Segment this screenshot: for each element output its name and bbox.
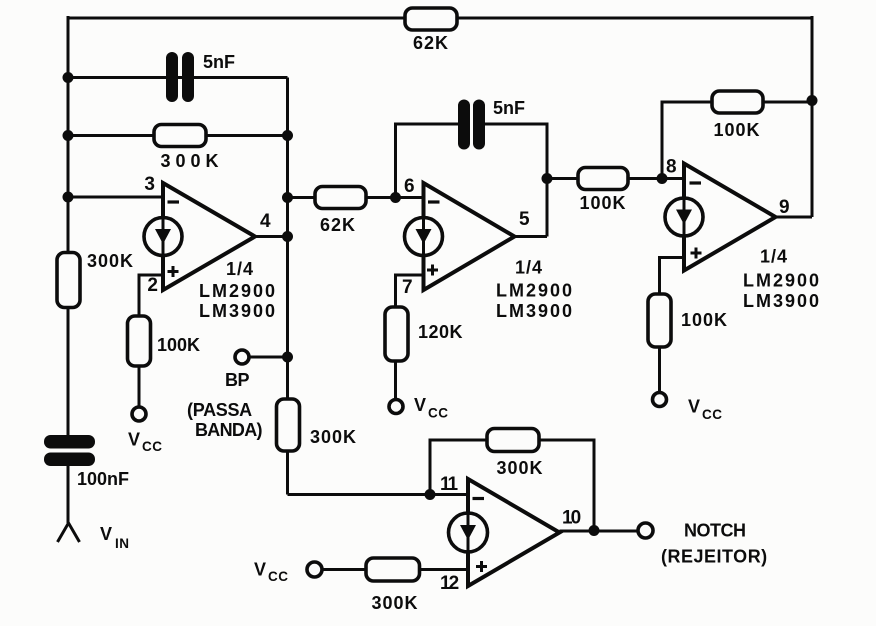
terminal Vcc U1: [132, 407, 146, 421]
wire capacitor C2 right branch: [485, 124, 547, 237]
svg-text:LM3900: LM3900: [199, 301, 277, 321]
wire plus input U3: [660, 258, 685, 295]
svg-text:V: V: [414, 395, 427, 415]
node junction BP: [282, 352, 293, 363]
resistor 300K input divider: [57, 253, 80, 308]
svg-text:6: 6: [404, 176, 416, 197]
svg-text:5: 5: [519, 209, 531, 230]
op-amp U1 current mirror: [144, 218, 182, 256]
op-amp U3 current mirror: [665, 198, 703, 236]
wire pin 7 Vcc stub U2: [394, 361, 397, 400]
wire pin 3 input U1: [68, 196, 163, 199]
wire 62K coupling to pin 6: [288, 196, 424, 199]
svg-text:1/4: 1/4: [226, 259, 254, 279]
svg-text:120K: 120K: [418, 322, 463, 342]
svg-text:5nF: 5nF: [493, 98, 525, 118]
svg-text:CC: CC: [142, 439, 163, 454]
terminal Vcc U4: [307, 562, 322, 577]
wire resistor 300K feedback branch U1: [68, 134, 288, 137]
resistor 120K pin 7 bias U2: [385, 307, 408, 361]
capacitor C4 100nF plate 1: [44, 435, 95, 449]
wire 100K coupling to pin 8: [547, 177, 684, 180]
capacitor C1 5nF plate 2: [182, 52, 194, 102]
svg-text:(REJEITOR): (REJEITOR): [661, 547, 768, 567]
svg-text:300K: 300K: [496, 458, 543, 478]
resistor 300K feedback U1: [154, 125, 206, 147]
terminal Vcc U2: [389, 400, 403, 414]
svg-text:100K: 100K: [681, 310, 728, 330]
svg-text:BP: BP: [225, 370, 249, 390]
wire pin 9 output U3: [776, 216, 813, 219]
wire pin 10 output U4: [560, 530, 639, 533]
svg-text:BANDA): BANDA): [195, 420, 262, 440]
node junction pin 8: [657, 173, 668, 184]
svg-text:9: 9: [779, 197, 791, 218]
resistor 300K feedback U4: [487, 429, 539, 452]
op-amp U4 plus sign: [476, 561, 487, 572]
svg-text:LM3900: LM3900: [743, 291, 821, 311]
wire 300K feedback right leg U4: [539, 440, 594, 531]
svg-text:CC: CC: [268, 569, 289, 584]
svg-text:LM2900: LM2900: [496, 281, 574, 301]
node junction pin 10: [589, 525, 600, 536]
svg-text:V: V: [128, 430, 141, 450]
op-amp U4: [468, 479, 560, 586]
wire pin 5 output U2: [515, 235, 548, 238]
svg-text:V: V: [688, 397, 701, 417]
svg-text:100nF: 100nF: [77, 469, 129, 489]
wire left input rail: [67, 16, 70, 437]
node junction 62K left: [282, 192, 293, 203]
terminal NOTCH output: [638, 523, 653, 538]
svg-text:2: 2: [147, 275, 159, 296]
op-amp U2: [424, 183, 515, 290]
node junction left C1: [63, 72, 74, 83]
node junction pin 6: [390, 192, 401, 203]
wire input coupling below C4: [67, 464, 70, 523]
svg-text:100K: 100K: [713, 120, 760, 140]
op-amp U4 current mirror: [449, 513, 488, 552]
svg-text:11: 11: [440, 474, 459, 495]
svg-text:300K: 300K: [160, 151, 223, 171]
op-amp U3: [684, 164, 776, 271]
svg-text:1/4: 1/4: [760, 247, 788, 267]
resistor 300K pin 12 U4: [366, 558, 420, 581]
svg-text:LM3900: LM3900: [496, 301, 574, 321]
op-amp U1 plus sign: [168, 266, 179, 277]
wire BP tap: [249, 356, 288, 359]
svg-text:(PASSA: (PASSA: [187, 400, 252, 420]
svg-text:5nF: 5nF: [203, 52, 235, 72]
wire top feedback rail: [68, 17, 812, 20]
node junction 300K right: [282, 130, 293, 141]
svg-text:300K: 300K: [87, 251, 134, 271]
svg-text:100K: 100K: [579, 193, 626, 213]
resistor 100K bias U3: [648, 294, 671, 347]
capacitor C1 5nF plate 1: [166, 52, 178, 102]
svg-text:3: 3: [144, 174, 156, 195]
svg-text:100K: 100K: [157, 335, 200, 355]
label Vcc U4: [254, 560, 289, 585]
resistor 300K BP branch: [277, 399, 300, 451]
wire capacitor C2 left branch: [396, 124, 459, 198]
svg-text:LM2900: LM2900: [199, 281, 277, 301]
svg-text:10: 10: [562, 508, 581, 529]
input arrow V_IN: [58, 523, 80, 542]
wire plus Vcc stub U3: [658, 347, 661, 393]
op-amp U3 plus sign: [691, 248, 702, 259]
capacitor C4 100nF plate 2: [44, 453, 95, 467]
wire pin 11 input U4: [288, 493, 469, 496]
op-amp U2 minus sign: [428, 200, 440, 203]
svg-text:1/4: 1/4: [515, 258, 543, 278]
op-amp U4 minus sign: [473, 497, 485, 500]
svg-text:V: V: [100, 524, 113, 544]
wire pin 7 input U2: [396, 275, 424, 307]
svg-text:4: 4: [260, 211, 272, 232]
svg-text:CC: CC: [428, 406, 449, 421]
resistor 100K pin 2 bias U1: [128, 316, 151, 366]
node junction right rail: [807, 95, 818, 106]
label Vcc U2: [414, 395, 449, 421]
wire pin 2 input U1: [139, 275, 163, 316]
wire right rail down to pin 9: [811, 16, 814, 217]
op-amp U1 minus sign: [168, 200, 180, 203]
wire capacitor C1 branch: [68, 76, 288, 79]
wire 100K feedback right to rail: [763, 101, 812, 104]
resistor 62K top feedback: [405, 8, 457, 30]
op-amp U1: [163, 183, 255, 290]
wire pin 2 Vcc stub U1: [138, 366, 141, 408]
node junction pin 11: [425, 489, 436, 500]
op-amp U3 minus sign: [690, 181, 702, 184]
svg-text:62K: 62K: [413, 33, 449, 53]
op-amp U2 plus sign: [427, 265, 438, 276]
svg-text:300K: 300K: [310, 427, 357, 447]
svg-text:LM2900: LM2900: [743, 271, 821, 291]
wire pin 4 output U1: [255, 235, 288, 238]
op-amp U2 current mirror: [405, 218, 443, 256]
capacitor C2 5nF plate 1: [458, 100, 470, 150]
node junction left pin 3: [63, 192, 74, 203]
wire 100K feedback branch U3: [662, 102, 712, 179]
svg-text:62K: 62K: [320, 215, 356, 235]
terminal Vcc U3: [653, 393, 667, 407]
svg-text:12: 12: [440, 573, 459, 594]
svg-text:NOTCH: NOTCH: [684, 521, 746, 541]
node junction U2 output tap: [542, 173, 553, 184]
svg-text:IN: IN: [115, 536, 130, 551]
resistor 62K coupling U1-U2: [315, 187, 366, 209]
label Vcc U3: [688, 397, 723, 423]
svg-text:7: 7: [402, 277, 414, 298]
terminal BP: [235, 350, 249, 364]
svg-text:300K: 300K: [371, 593, 418, 613]
label V_IN: [100, 524, 130, 551]
wire 300K feedback loop U4: [430, 440, 487, 495]
wire node column A (op-amp U1 output bus): [286, 78, 289, 495]
wire pin 12 input U4: [322, 568, 469, 571]
svg-text:V: V: [254, 560, 267, 580]
node junction left 300K: [63, 130, 74, 141]
label Vcc U1: [128, 430, 163, 455]
svg-text:CC: CC: [702, 407, 723, 422]
svg-text:8: 8: [666, 157, 678, 178]
resistor 100K feedback U3: [712, 91, 763, 113]
node junction U1 output: [282, 231, 293, 242]
resistor 100K coupling U2-U3: [578, 168, 628, 190]
capacitor C2 5nF plate 2: [473, 100, 485, 150]
